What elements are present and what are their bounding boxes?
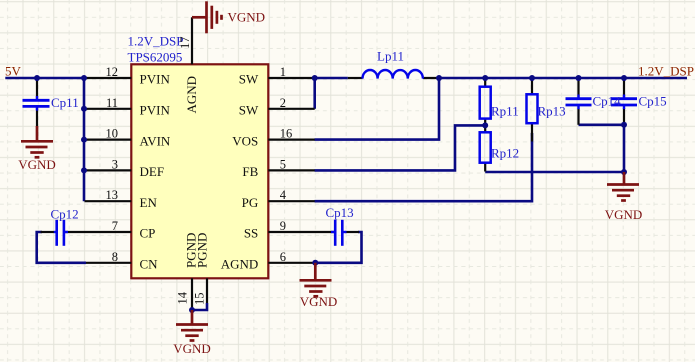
svg-text:AGND: AGND xyxy=(221,257,259,272)
svg-text:EN: EN xyxy=(140,195,158,210)
svg-text:Cp12: Cp12 xyxy=(51,207,79,222)
svg-text:VGND: VGND xyxy=(300,294,338,309)
svg-text:AGND: AGND xyxy=(184,76,199,114)
svg-text:2: 2 xyxy=(280,96,286,110)
svg-text:Rp11: Rp11 xyxy=(491,104,519,119)
svg-text:Cp15: Cp15 xyxy=(639,94,667,109)
svg-text:Rp12: Rp12 xyxy=(491,146,519,161)
svg-text:FB: FB xyxy=(242,164,258,179)
svg-text:17: 17 xyxy=(178,37,192,50)
svg-text:CN: CN xyxy=(140,257,159,272)
svg-text:5V: 5V xyxy=(5,64,22,79)
svg-text:PGND: PGND xyxy=(195,233,210,268)
svg-text:Rp13: Rp13 xyxy=(538,104,566,119)
svg-text:SW: SW xyxy=(239,103,259,118)
svg-text:TPS62095: TPS62095 xyxy=(128,50,183,65)
svg-text:VGND: VGND xyxy=(228,10,266,25)
svg-text:8: 8 xyxy=(112,250,118,264)
svg-text:Cp14: Cp14 xyxy=(593,94,622,109)
svg-text:PG: PG xyxy=(242,195,259,210)
svg-text:DEF: DEF xyxy=(140,164,165,179)
svg-text:6: 6 xyxy=(280,250,286,264)
svg-text:CP: CP xyxy=(140,226,156,241)
svg-text:VOS: VOS xyxy=(232,133,258,148)
svg-text:13: 13 xyxy=(106,188,119,202)
svg-text:Cp11: Cp11 xyxy=(51,95,79,110)
svg-text:VGND: VGND xyxy=(18,157,56,172)
svg-text:1: 1 xyxy=(280,65,286,79)
svg-text:15: 15 xyxy=(192,293,206,306)
svg-text:VGND: VGND xyxy=(173,341,211,356)
svg-text:9: 9 xyxy=(280,219,286,233)
svg-text:12: 12 xyxy=(106,65,119,79)
svg-text:PVIN: PVIN xyxy=(140,103,171,118)
svg-text:Cp13: Cp13 xyxy=(326,205,354,220)
svg-text:1.2V_DSP: 1.2V_DSP xyxy=(638,64,694,79)
svg-text:SS: SS xyxy=(244,226,258,241)
svg-text:PVIN: PVIN xyxy=(140,72,171,87)
svg-text:16: 16 xyxy=(280,127,293,141)
svg-text:1.2V_DSP: 1.2V_DSP xyxy=(128,34,184,49)
svg-text:VGND: VGND xyxy=(605,207,643,222)
svg-text:5: 5 xyxy=(280,157,286,171)
svg-text:4: 4 xyxy=(280,188,287,202)
svg-text:SW: SW xyxy=(239,72,259,87)
svg-text:7: 7 xyxy=(112,219,118,233)
svg-text:11: 11 xyxy=(106,96,118,110)
svg-text:14: 14 xyxy=(175,291,189,304)
svg-text:Lp11: Lp11 xyxy=(377,49,404,64)
svg-text:AVIN: AVIN xyxy=(140,133,171,148)
svg-text:10: 10 xyxy=(106,127,119,141)
svg-text:3: 3 xyxy=(112,157,118,171)
